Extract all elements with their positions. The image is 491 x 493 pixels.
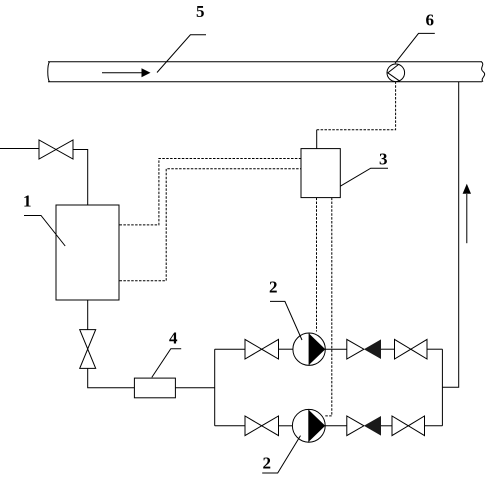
wire	[279, 425, 293, 427]
pipe 5 bottom wall	[48, 81, 482, 83]
check valve CV2 (lower branch)	[347, 416, 364, 436]
pump P1 (label 2)	[293, 333, 325, 365]
manifold left header	[214, 349, 216, 426]
svg-text:4: 4	[169, 329, 178, 348]
svg-text:3: 3	[379, 150, 388, 169]
wire	[325, 348, 347, 350]
valve V1 (top-left gate valve)	[39, 140, 56, 159]
leader line upper 2	[270, 301, 302, 340]
flow arrow up beside riser	[466, 194, 468, 243]
control line A (dotted, tank 1 to controller 3)	[120, 159, 302, 225]
control line B (dotted, tank 1 to controller 3)	[120, 169, 302, 281]
pipe left end cap	[48, 62, 50, 82]
lower branch wire	[215, 425, 245, 427]
pump P2 (label 2)	[292, 409, 325, 442]
control line to nozzle 6 (dotted)	[317, 82, 396, 130]
leader line for label 3	[340, 168, 388, 186]
check valve CV1 (upper branch)	[347, 339, 364, 359]
svg-text:6: 6	[426, 11, 435, 30]
pipe 5 top wall	[48, 61, 482, 63]
wire	[427, 348, 442, 350]
wire	[325, 425, 347, 427]
supply line into valve V1	[0, 148, 39, 150]
svg-text:2: 2	[263, 454, 272, 473]
control line C to pump P1 (dotted)	[316, 198, 318, 332]
valve V2 (vertical gate valve)	[80, 330, 96, 349]
leader line for label 5	[157, 35, 206, 73]
leader line for label 4	[152, 349, 181, 378]
valve B2 (upper branch outlet)	[395, 339, 411, 359]
upper branch wire	[215, 348, 245, 350]
pipe right break line	[482, 62, 485, 82]
wire flow meter 4 to manifold	[175, 387, 214, 389]
svg-text:1: 1	[23, 192, 32, 211]
leader line for label 1	[24, 216, 65, 247]
tank 1	[56, 205, 119, 300]
leader line lower 2	[262, 436, 300, 473]
wire	[279, 348, 294, 350]
controller 3	[301, 149, 340, 198]
wire valve V1 to tank 1	[73, 150, 88, 206]
valve B3 (lower branch inlet)	[245, 416, 262, 436]
svg-text:2: 2	[269, 278, 278, 297]
nozzle 6	[387, 64, 405, 82]
riser pipe to main	[442, 82, 458, 387]
manifold right header	[441, 349, 443, 426]
valve B4 (lower branch outlet)	[392, 416, 408, 436]
wire controller 3 top stub	[316, 130, 318, 149]
wire tank 1 to valve V2	[87, 300, 89, 330]
valve B1 (upper branch inlet)	[245, 339, 262, 359]
wire	[425, 425, 443, 427]
svg-text:5: 5	[196, 2, 205, 21]
wire	[381, 425, 392, 427]
flow meter 4	[134, 378, 175, 398]
control line D to pump P2 (dotted)	[325, 198, 332, 416]
flow arrow in pipe	[102, 72, 143, 74]
leader line for label 6	[395, 33, 435, 63]
wire	[381, 348, 395, 350]
wire valve V2 to flow meter 4	[88, 368, 135, 387]
